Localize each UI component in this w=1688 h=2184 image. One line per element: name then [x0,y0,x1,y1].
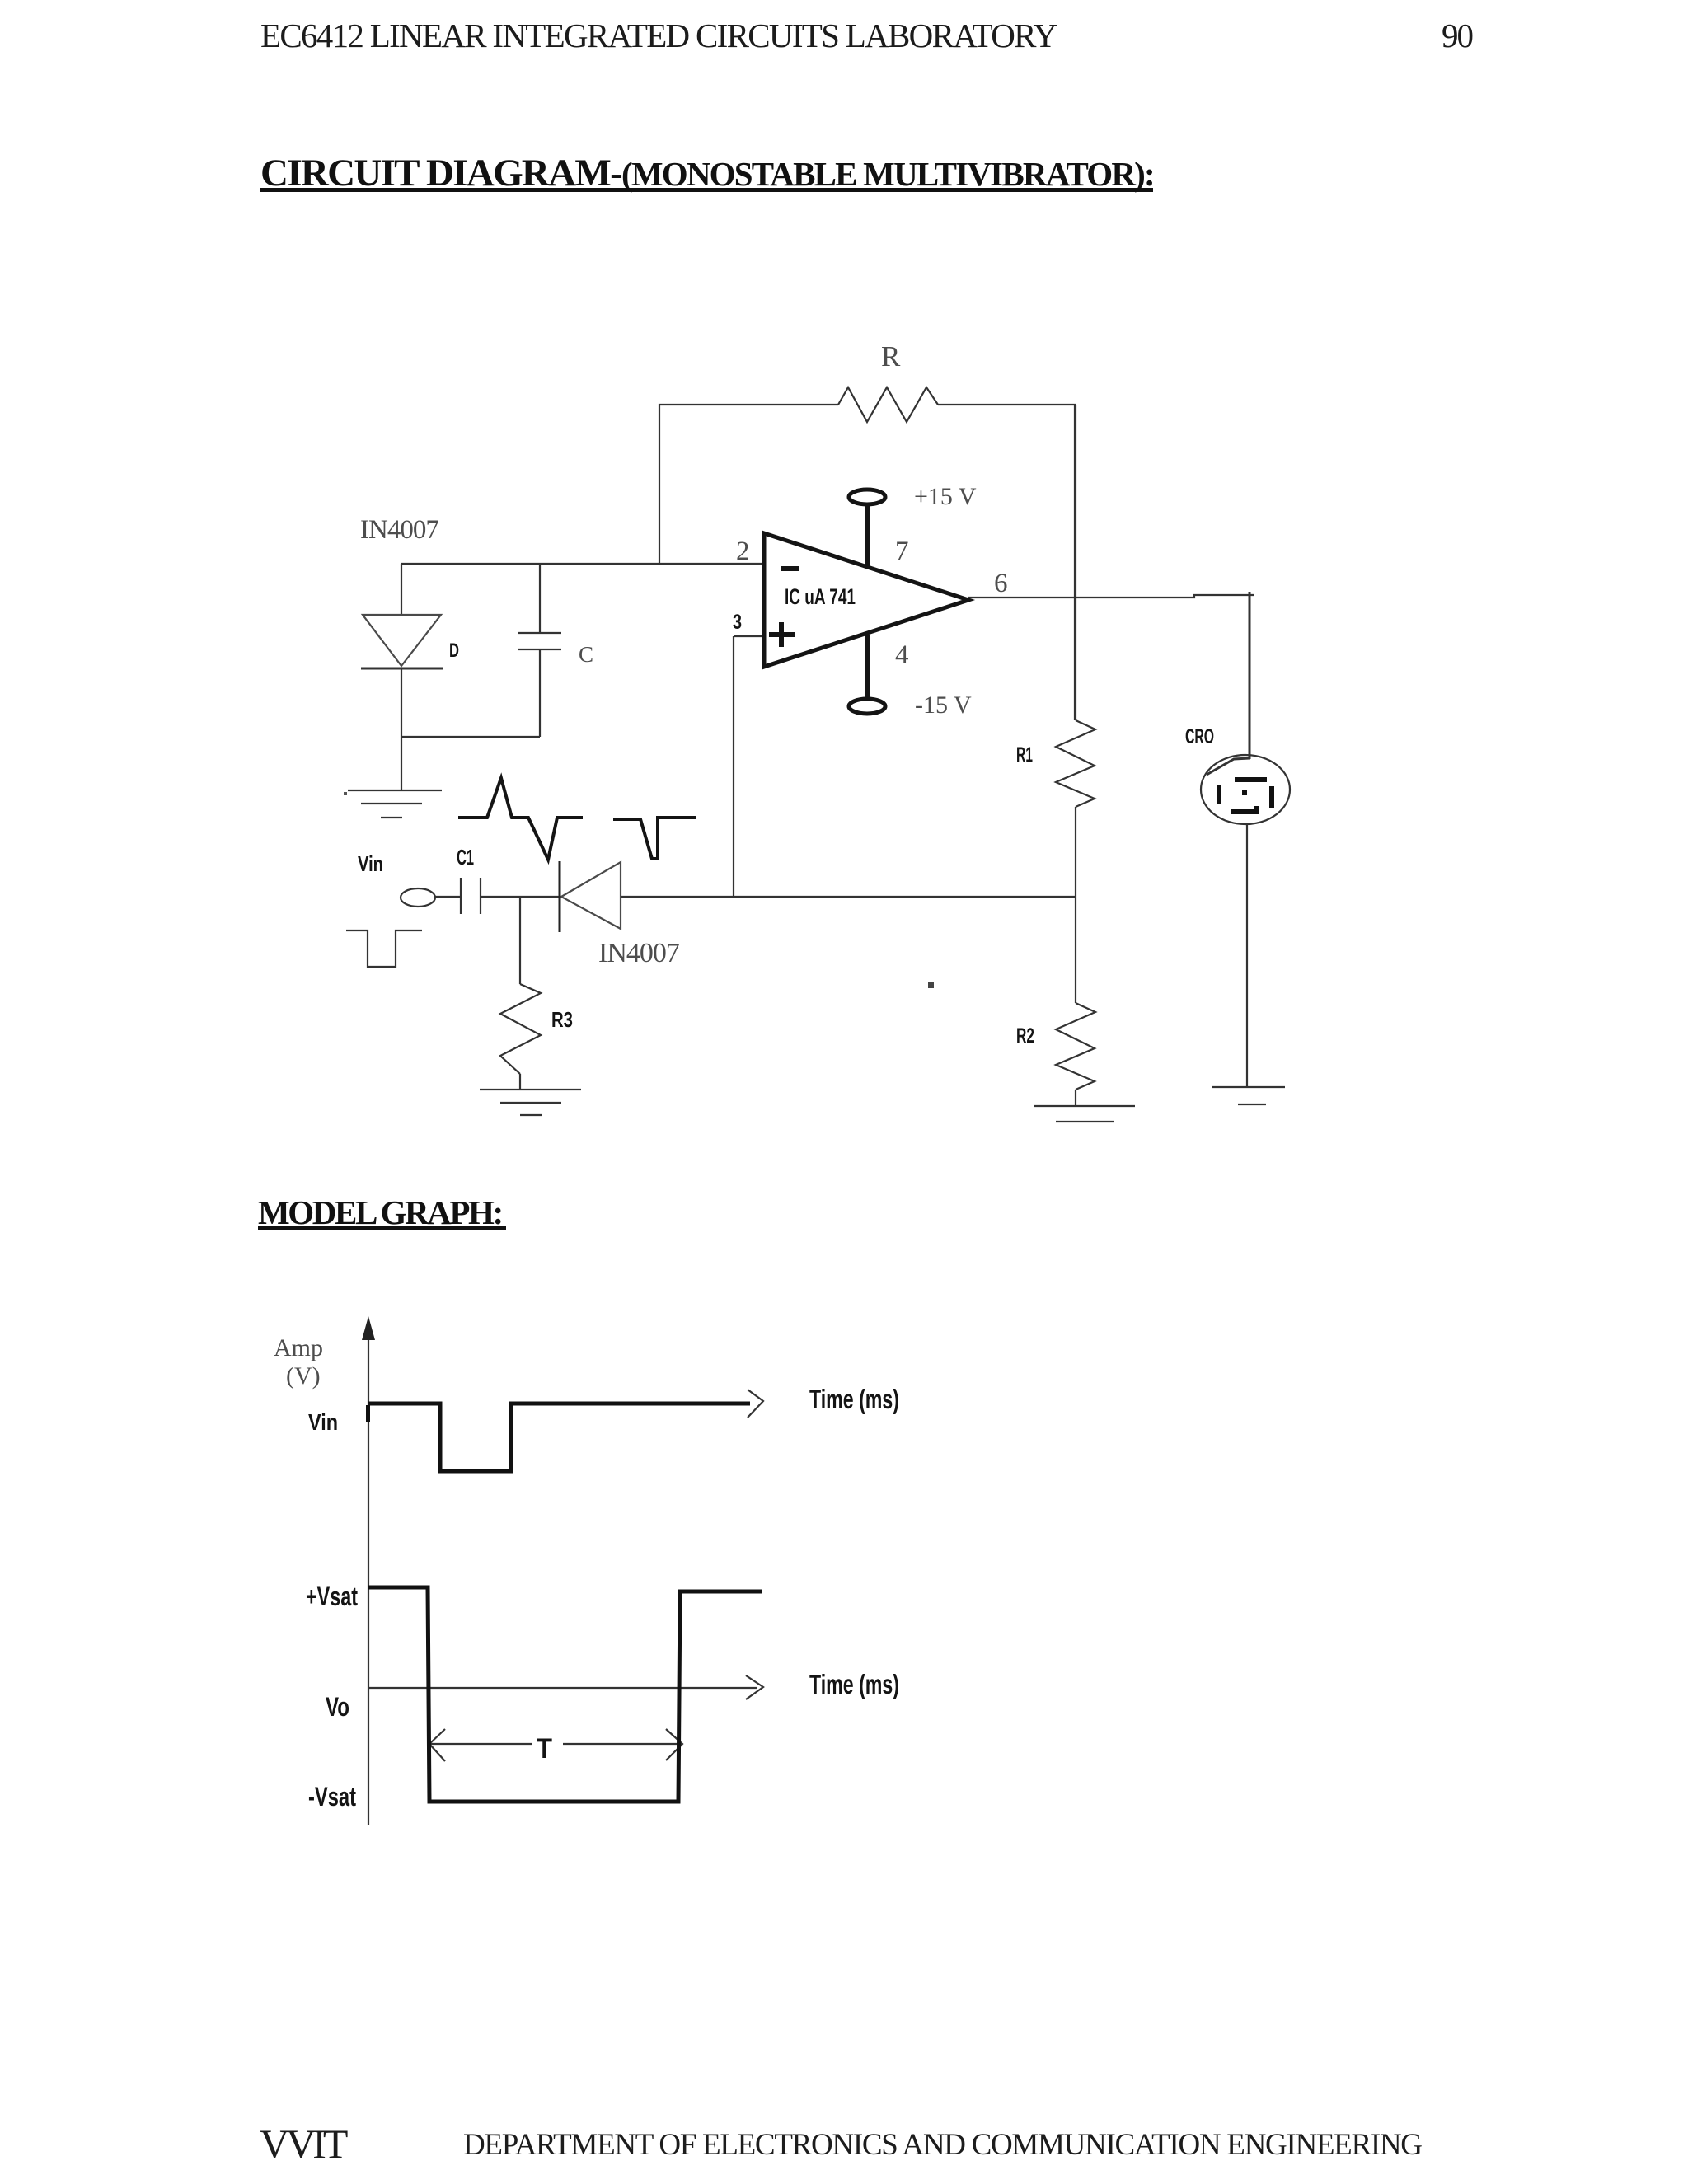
svg-text:3: 3 [733,611,742,634]
svg-text:D: D [449,640,459,662]
svg-text:+15 V: +15 V [914,483,977,510]
svg-text:-15 V: -15 V [915,691,972,719]
svg-text:Time (ms): Time (ms) [809,1669,899,1699]
svg-text:4: 4 [895,640,909,670]
svg-text:CRO: CRO [1185,725,1214,748]
svg-text:IC uA 741: IC uA 741 [785,584,856,609]
svg-text:R2: R2 [1016,1024,1034,1047]
svg-text:+Vsat: +Vsat [306,1582,358,1611]
svg-text:-Vsat: -Vsat [308,1782,356,1811]
svg-text:Vin: Vin [358,851,383,876]
svg-text:C1: C1 [457,845,474,869]
svg-text:R: R [881,340,901,373]
svg-text:R3: R3 [551,1007,573,1032]
svg-text:(V): (V) [286,1362,321,1390]
svg-text:7: 7 [895,537,909,566]
svg-text:Time (ms): Time (ms) [809,1384,899,1414]
svg-text:R1: R1 [1016,743,1033,766]
svg-text:C: C [579,642,593,667]
svg-text:6: 6 [994,569,1008,598]
svg-text:2: 2 [736,537,750,566]
svg-text:IN4007: IN4007 [598,938,680,968]
svg-text:Amp: Amp [274,1334,323,1361]
svg-text:T: T [537,1733,552,1765]
svg-text:EC6412 LINEAR INTEGRATED CIRCU: EC6412 LINEAR INTEGRATED CIRCUITS LABORA… [260,16,1057,54]
svg-text:DEPARTMENT OF ELECTRONICS AND: DEPARTMENT OF ELECTRONICS AND COMMUNICAT… [463,2128,1422,2162]
svg-text:Vin: Vin [308,1409,338,1435]
svg-text:VVIT: VVIT [260,2121,348,2167]
svg-text:IN4007: IN4007 [360,515,438,545]
svg-text:Vo: Vo [326,1692,349,1722]
svg-text:90: 90 [1442,16,1473,54]
